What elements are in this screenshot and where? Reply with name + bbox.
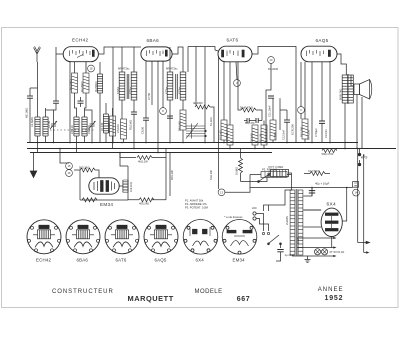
- resistor R4 box: [121, 119, 127, 139]
- resistor R15 zigzag: [80, 168, 95, 172]
- wire R19 leads: [240, 149, 242, 182]
- wire to circles 15-16: [60, 149, 69, 164]
- wire T3 down to bus: [344, 103, 346, 149]
- wire R6 right lead: [210, 107, 214, 143]
- junction dot bus1 x330: [329, 142, 331, 144]
- svg-text:0,5MΩ: 0,5MΩ: [273, 132, 277, 140]
- reference circle 8: [160, 108, 167, 115]
- wire L6 leads: [105, 103, 107, 143]
- resistor R16 zigzag: [82, 198, 97, 202]
- reference circle 10: [268, 57, 275, 64]
- svg-text:EM34: EM34: [100, 202, 113, 207]
- svg-text:R14,250: R14,250: [307, 129, 311, 140]
- wire EM34 right to coil: [119, 185, 123, 187]
- tube V2 6BA6 electrodes: [147, 50, 168, 56]
- svg-text:HPS: HPS: [361, 156, 368, 160]
- junction dot bus2 x255: [254, 148, 256, 150]
- tube V4 6AQ5 envelope: [301, 46, 337, 62]
- junction dot bus1 x53: [53, 142, 55, 144]
- svg-text:1μ 1500: 1μ 1500: [285, 253, 295, 257]
- resistor R19 vertical zigzag: [239, 158, 243, 173]
- svg-text:MODELE: MODELE: [195, 289, 223, 295]
- reference circle 14: [353, 189, 360, 196]
- power transformer T4 secondary winding: [298, 190, 303, 255]
- svg-text:6AT6: 6AT6: [116, 258, 127, 263]
- svg-text:110,1kΩ: 110,1kΩ: [129, 182, 133, 192]
- svg-text:ECH42: ECH42: [36, 258, 52, 263]
- resistor R5 box: [180, 110, 186, 130]
- wire T2 secondary down: [182, 100, 184, 110]
- reference circle 18: [88, 65, 95, 72]
- svg-text:C12,5nF: C12,5nF: [282, 129, 286, 140]
- reference circle 2: [234, 80, 241, 87]
- wire 6AQ5 pin drop x=305: [304, 62, 306, 143]
- EM34 circuit box bottom: [80, 199, 128, 201]
- speaker feed arrow 2: [366, 251, 369, 253]
- wire transformer bottom to heater lines: [293, 255, 298, 256]
- coil L7 EM34: [123, 180, 128, 192]
- wire 6BA6 pin to circle 8: [162, 62, 164, 108]
- svg-text:400,24Ω: 400,24Ω: [139, 202, 149, 206]
- pot switch contact dots: [258, 181, 260, 183]
- svg-text:MARQUETT: MARQUETT: [128, 294, 174, 303]
- junction dot bus2 x357: [357, 148, 359, 150]
- reference circle 3: [218, 189, 225, 196]
- socket base 6AT6: [105, 220, 139, 254]
- wire pot right to transformer: [289, 173, 292, 190]
- wire T1 primary down: [121, 100, 123, 119]
- wire circle 9 down: [300, 113, 302, 119]
- resistor R3 box: [110, 116, 116, 136]
- wire speaker down x=357: [356, 95, 358, 149]
- wire R4 to bus: [123, 139, 125, 143]
- svg-text:6AT6: 6AT6: [227, 38, 239, 43]
- svg-text:C8,110: C8,110: [87, 125, 91, 134]
- wire C9: [244, 120, 253, 122]
- trimmer capacitor CT2: [89, 121, 96, 129]
- dial lamp LP2 filament: [323, 250, 327, 254]
- svg-text:MF.472kc: MF.472kc: [118, 67, 130, 71]
- wire rail 6AT6 to 6AQ5: [252, 47, 296, 143]
- wire EM34 top feed: [120, 153, 128, 167]
- main bus wire 3: [30, 152, 272, 154]
- wire C5 to bus: [133, 114, 135, 148]
- EM34 circuit box left side: [79, 170, 81, 200]
- speaker feed arrow 1: [366, 241, 369, 243]
- wire R8 to bus: [229, 145, 231, 149]
- EM34 electrodes: [94, 181, 115, 192]
- wire antenna down: [37, 62, 39, 117]
- wire C10: [253, 120, 262, 122]
- resistor R2 box: [83, 73, 89, 93]
- svg-text:6,3V: 6,3V: [296, 238, 300, 244]
- svg-text:CONSTRUCTEUR: CONSTRUCTEUR: [52, 289, 114, 295]
- junction dot bus1 x224: [223, 142, 225, 144]
- wire right margin drop x=357.7: [357, 149, 359, 243]
- T3 core line: [347, 74, 349, 104]
- wire T2 primary down to bus: [169, 100, 171, 143]
- switch S1 lever: [269, 235, 280, 244]
- chassis ground stub: [305, 256, 311, 262]
- junction dot bus1 x122: [121, 142, 123, 144]
- ground arrowhead: [30, 171, 37, 178]
- svg-text:P3. POTENT. 0,5M: P3. POTENT. 0,5M: [185, 206, 209, 210]
- output transformer T3 primary: [342, 75, 348, 103]
- svg-text:51,1kΩ: 51,1kΩ: [209, 117, 213, 126]
- wire C2 stub: [80, 97, 82, 107]
- wire 6AQ5 plate to output transformer: [337, 54, 346, 75]
- wire R15 right lead into EM34: [95, 170, 99, 178]
- svg-text:R5,1MΩ: R5,1MΩ: [129, 120, 133, 130]
- svg-text:50p 47k: 50p 47k: [245, 121, 255, 125]
- socket base 6X4: [183, 220, 218, 255]
- wire C16 down: [276, 252, 281, 261]
- junction dot bus1 x266: [265, 142, 267, 144]
- capacitor C1 left margin: [27, 96, 33, 98]
- wire circle 10 drop: [266, 63, 271, 142]
- svg-text:40μ + 16μF: 40μ + 16μF: [315, 182, 330, 186]
- HPS terminal post lower: [358, 163, 361, 166]
- svg-text:2x300V: 2x300V: [285, 216, 289, 225]
- pot P3 wiper arrow: [259, 174, 271, 182]
- junction dot bus1 x70: [69, 142, 71, 144]
- coil L6 wave trap: [103, 114, 108, 133]
- wire 6BA6 pin drop x=158: [157, 61, 159, 153]
- wire right margin drop x=363.7: [363, 155, 365, 253]
- wire L2 top stub: [45, 108, 47, 117]
- T4 core lines: [295, 189, 298, 256]
- wire R1 down to osc coil L4: [75, 93, 77, 117]
- wire CT1 leads: [46, 110, 54, 143]
- wire switch to transformer primary bottom: [280, 244, 282, 248]
- svg-text:C5,100: C5,100: [116, 124, 120, 133]
- svg-text:6BA6: 6BA6: [77, 258, 89, 263]
- tube V2 6BA6 envelope: [141, 47, 172, 61]
- heater line 3: [297, 255, 334, 257]
- speaker feed stub 1: [358, 241, 370, 243]
- wire rail IF2 to 6AT6: [188, 47, 218, 52]
- wire 6X4 heater down: [331, 237, 333, 248]
- svg-text:472kc: 472kc: [165, 86, 169, 94]
- capacitor C2: [78, 101, 84, 103]
- wire R17 to vertical: [152, 157, 166, 159]
- svg-text:C9,2MΩ: C9,2MΩ: [250, 133, 254, 143]
- svg-text:R1,25kΩ: R1,25kΩ: [69, 79, 73, 90]
- wire R20 leads: [250, 175, 292, 188]
- wire x=280 AVC: [279, 98, 281, 130]
- capacitor C10 plates: [256, 118, 258, 123]
- svg-text:R2,20kΩ: R2,20kΩ: [80, 81, 84, 92]
- svg-text:BOB,7kΩ: BOB,7kΩ: [339, 89, 343, 100]
- wire IF2 left coil to rail: [169, 47, 171, 72]
- junction dot bus2 x363: [363, 154, 365, 156]
- wire 6AT6 pin drop x=218.5: [218, 56, 220, 189]
- junction dot bus1 x205: [204, 142, 206, 144]
- wire speaker down x=362: [361, 97, 363, 149]
- junction dot bus2 x183: [182, 142, 184, 144]
- svg-text:667: 667: [237, 296, 250, 303]
- wire vertical x=170: [169, 153, 171, 197]
- antenna coil L1 primary: [35, 117, 40, 136]
- wire L3 bottom to bus: [99, 93, 101, 143]
- capacitor C13 electrolytic: [319, 121, 325, 123]
- wire 6AT6 pin drop x=224: [223, 62, 225, 120]
- junction dot bus1 x146: [145, 142, 147, 144]
- junction dot bus3 x60: [59, 148, 61, 150]
- oscillator coil L5: [82, 117, 87, 136]
- svg-text:MF.472kc: MF.472kc: [166, 67, 178, 71]
- wire 6AT6 pin drop x=230: [229, 62, 231, 125]
- junction dot bus1 x92: [91, 142, 93, 144]
- heater arrows: [333, 237, 336, 257]
- socket base 6AQ5: [144, 220, 178, 254]
- svg-text:* vu de dessous: * vu de dessous: [224, 215, 243, 219]
- IF transformer T2 primary: [167, 72, 173, 100]
- HPS terminal post upper: [358, 153, 361, 156]
- band switch S2 contact comb: [186, 123, 206, 139]
- ground symbol: [33, 153, 35, 172]
- wire top drop x=205: [204, 47, 206, 143]
- wire R10 to bus: [254, 145, 256, 149]
- tube V1 ECH42 electrodes: [70, 50, 95, 58]
- heater line 1: [297, 237, 334, 239]
- svg-text:C7,50: C7,50: [147, 92, 151, 100]
- wire ECH42 pin drop x=70: [69, 61, 71, 143]
- tube V1 ECH42 envelope: [63, 47, 98, 62]
- wire drop x=196 from rail: [195, 47, 197, 106]
- wire circle 3 to B line: [225, 188, 250, 193]
- svg-text:472kc: 472kc: [116, 86, 120, 94]
- wire T4 HT tap to 6X4 plate 2: [303, 226, 321, 228]
- svg-text:C6,50: C6,50: [141, 126, 145, 134]
- svg-text:6AQ5: 6AQ5: [316, 38, 329, 43]
- wire R2 down to osc coil L5: [85, 93, 87, 117]
- resistor R6 zigzag: [195, 105, 210, 109]
- svg-text:P2. ARRIERE 47k: P2. ARRIERE 47k: [185, 202, 207, 206]
- tube V3 6AT6 envelope: [218, 46, 252, 62]
- wire vertical x=166: [165, 149, 167, 200]
- fuse circles: [262, 232, 264, 234]
- svg-text:C1,50: C1,50: [47, 120, 51, 128]
- power transformer T4 primary winding: [290, 190, 295, 255]
- wire R12 leads: [272, 98, 274, 143]
- wire HPS stub: [359, 149, 361, 164]
- wire CT2 leads: [85, 110, 93, 143]
- 6X4 electrodes: [325, 213, 338, 231]
- wire mains vertical: [268, 205, 270, 211]
- trimmer capacitor CT1: [50, 121, 57, 129]
- wire 6X4 cathode riser: [342, 188, 347, 222]
- junction dot bus2 x134: [133, 148, 135, 150]
- wire 6AQ5 pin drop x=312: [311, 62, 313, 143]
- resistor R7 box: [221, 120, 227, 140]
- wire 6AQ5 grid drop to circle 9: [300, 62, 302, 107]
- svg-text:51Ω,1W: 51Ω,1W: [209, 170, 213, 180]
- svg-text:0,5MΩ: 0,5MΩ: [235, 167, 239, 175]
- wire pot bottom rail: [241, 181, 259, 183]
- resistor R13 box: [302, 119, 308, 139]
- wire L3 top to tube: [99, 62, 101, 74]
- wire C6 to bus: [145, 121, 147, 143]
- wire R15 left lead: [74, 169, 80, 171]
- oscillator coil L4: [74, 117, 79, 136]
- svg-text:R6,1MΩ: R6,1MΩ: [178, 121, 182, 131]
- ganged tuning dashed link: [50, 129, 95, 131]
- electrolytic capacitor C15: [309, 191, 315, 193]
- svg-text:2T 5V=6,3A: 2T 5V=6,3A: [330, 250, 345, 254]
- svg-text:A1,4MΩ: A1,4MΩ: [30, 117, 34, 127]
- svg-text:EM34: EM34: [233, 258, 246, 263]
- wire R9 left lead: [238, 62, 241, 110]
- heater line 2: [297, 247, 334, 249]
- loudspeaker LS1: [354, 80, 372, 100]
- coupling capacitor C11 plates: [268, 96, 274, 98]
- antenna symbol: [34, 47, 41, 63]
- wire ECH42 grid down to tuner: [55, 54, 57, 101]
- terminal block glyph: [354, 183, 357, 186]
- capacitor C6: [143, 118, 149, 120]
- capacitor C9 plates: [247, 118, 249, 123]
- junction dot bus3 x120: [119, 152, 121, 154]
- svg-text:4k,2000: 4k,2000: [193, 101, 203, 105]
- reference circle 15: [66, 163, 73, 170]
- coil L3 grid coil: [97, 74, 102, 93]
- wire horizontal y=199.8: [128, 199, 166, 201]
- wire ECH42 pin drop x=74.5: [74, 62, 76, 74]
- wire R3 leads: [112, 108, 114, 149]
- svg-text:R3,50kΩ: R3,50kΩ: [94, 81, 98, 92]
- pot P3 hatch: [274, 170, 286, 177]
- svg-text:6X4: 6X4: [327, 202, 336, 208]
- wire primary top to switch: [264, 190, 293, 211]
- resistor R11 box: [261, 125, 267, 145]
- junction dot bus1 x312: [311, 142, 313, 144]
- tube V4 6AQ5 electrodes: [307, 50, 331, 57]
- tube V3 6AT6 electrodes: [222, 50, 245, 57]
- svg-text:NE,1MΩ: NE,1MΩ: [25, 108, 29, 118]
- wire L4 bottom to bus3: [76, 136, 78, 153]
- wire L5 bottom to bus1: [84, 136, 86, 143]
- junction dot bus1 x37: [37, 142, 39, 144]
- wire 6BA6 pin drop x=146: [145, 61, 147, 118]
- svg-text:220: 220: [252, 206, 257, 210]
- wire speaker to transformer top: [351, 75, 354, 86]
- wire R7 to bus: [223, 140, 225, 143]
- wire T4 HT tap to 6X4 plate 1: [303, 209, 321, 211]
- wire T1 sec down to C5: [133, 100, 135, 112]
- wire feed to R17: [120, 153, 136, 158]
- wire IF1 left coil to rail: [121, 47, 123, 72]
- resistor R17 zigzag 4k: [137, 156, 152, 160]
- main bus wire 1: [27, 142, 358, 144]
- svg-text:P3. R50,2kΩ: P3. R50,2kΩ: [262, 168, 277, 172]
- wire C15: [311, 188, 313, 197]
- svg-text:R51,1W: R51,1W: [170, 170, 174, 180]
- tube V6 EM34 envelope: [89, 178, 119, 194]
- main bus wire 2: [27, 148, 396, 150]
- svg-text:C4,110: C4,110: [70, 125, 74, 134]
- svg-text:P1. AVANT 50k: P1. AVANT 50k: [185, 199, 204, 203]
- wire 6BA6 plate rail to IF2: [172, 47, 183, 72]
- wire ECH42 cathode drop x=86: [85, 62, 87, 74]
- svg-text:50Ω,1700: 50Ω,1700: [322, 152, 334, 156]
- svg-text:50,47kΩ: 50,47kΩ: [225, 133, 229, 143]
- wire C13 leads: [321, 62, 323, 143]
- IF T1 core lines: [127, 74, 129, 99]
- svg-text:R4,1MΩ: R4,1MΩ: [107, 123, 111, 133]
- mains plug pins: [253, 212, 256, 215]
- wire 6AQ5 pin drop x=330: [329, 61, 331, 143]
- resistor R18 zigzag: [139, 198, 154, 202]
- svg-text:L6,240: L6,240: [100, 122, 104, 131]
- wire C3 to trimmer node: [54, 103, 57, 110]
- wire 6X4 plate tap upper: [303, 209, 321, 211]
- junction dot bus1 x113: [112, 142, 114, 144]
- junction dot bus1 x287: [286, 142, 288, 144]
- wire 6AT6 to circle 2: [236, 62, 237, 80]
- svg-text:C14,5n: C14,5n: [324, 129, 328, 138]
- svg-text:ECH42: ECH42: [72, 38, 88, 43]
- svg-text:4kΩ,1W: 4kΩ,1W: [138, 160, 148, 164]
- svg-text:472kc: 472kc: [178, 86, 182, 94]
- resistor R10 box: [252, 125, 258, 145]
- wire rail continuation to 6BA6: [134, 46, 141, 48]
- svg-text:C12 50nF: C12 50nF: [308, 169, 320, 173]
- wire pot left terminal: [259, 176, 271, 182]
- dial lamp LP1 filament: [315, 250, 319, 254]
- dial lamp LP1: [314, 249, 320, 255]
- svg-text:R13,250: R13,250: [300, 126, 304, 137]
- junction dot B+ x312: [311, 187, 313, 189]
- svg-text:R7,1MΩ: R7,1MΩ: [219, 130, 223, 140]
- wire C12 leads: [280, 110, 287, 143]
- svg-text:472kc: 472kc: [129, 86, 133, 94]
- wire R9 right lead: [256, 110, 262, 121]
- socket base EM34: [222, 220, 257, 255]
- wire top drop x=113: [112, 47, 114, 143]
- svg-text:50pF,47kΩ: 50pF,47kΩ: [240, 106, 253, 110]
- resistor R12 box: [270, 120, 276, 140]
- capacitor C7: [167, 116, 173, 118]
- wire R11 leads: [263, 121, 265, 149]
- svg-text:ECR,200: ECR,200: [291, 124, 295, 135]
- resistor R21 zigzag filter: [310, 172, 325, 176]
- svg-text:6X4: 6X4: [196, 258, 205, 263]
- wire 6BA6 pin drop x=152: [151, 61, 153, 105]
- wire C1 leads: [30, 88, 38, 143]
- wire mains to switch: [256, 214, 268, 232]
- reference circle 16: [66, 170, 73, 177]
- antenna coil L2 secondary: [43, 117, 48, 136]
- output transformer T3 secondary: [348, 75, 354, 103]
- junction dot bus2 x230: [229, 148, 231, 150]
- svg-text:C11,10nF: C11,10nF: [268, 105, 272, 117]
- capacitor C5: [131, 112, 137, 114]
- IF transformer T2 secondary: [180, 72, 186, 100]
- resistor R14 zigzag tone: [322, 149, 337, 153]
- IF transformer T1 primary: [119, 72, 125, 100]
- svg-text:1952: 1952: [325, 295, 344, 302]
- wire L2 bottom to bus1: [45, 136, 47, 143]
- resistor R1 box: [72, 73, 78, 93]
- switch S1 contacts: [268, 243, 270, 245]
- tube V5 6X4 envelope: [321, 208, 342, 236]
- resistor R8 box: [227, 125, 233, 145]
- capacitor C16 plates: [277, 250, 283, 252]
- wire T4 top tap: [303, 188, 312, 197]
- junction dot bus2 x158: [157, 152, 159, 154]
- volume potentiometer P3 body: [271, 170, 289, 177]
